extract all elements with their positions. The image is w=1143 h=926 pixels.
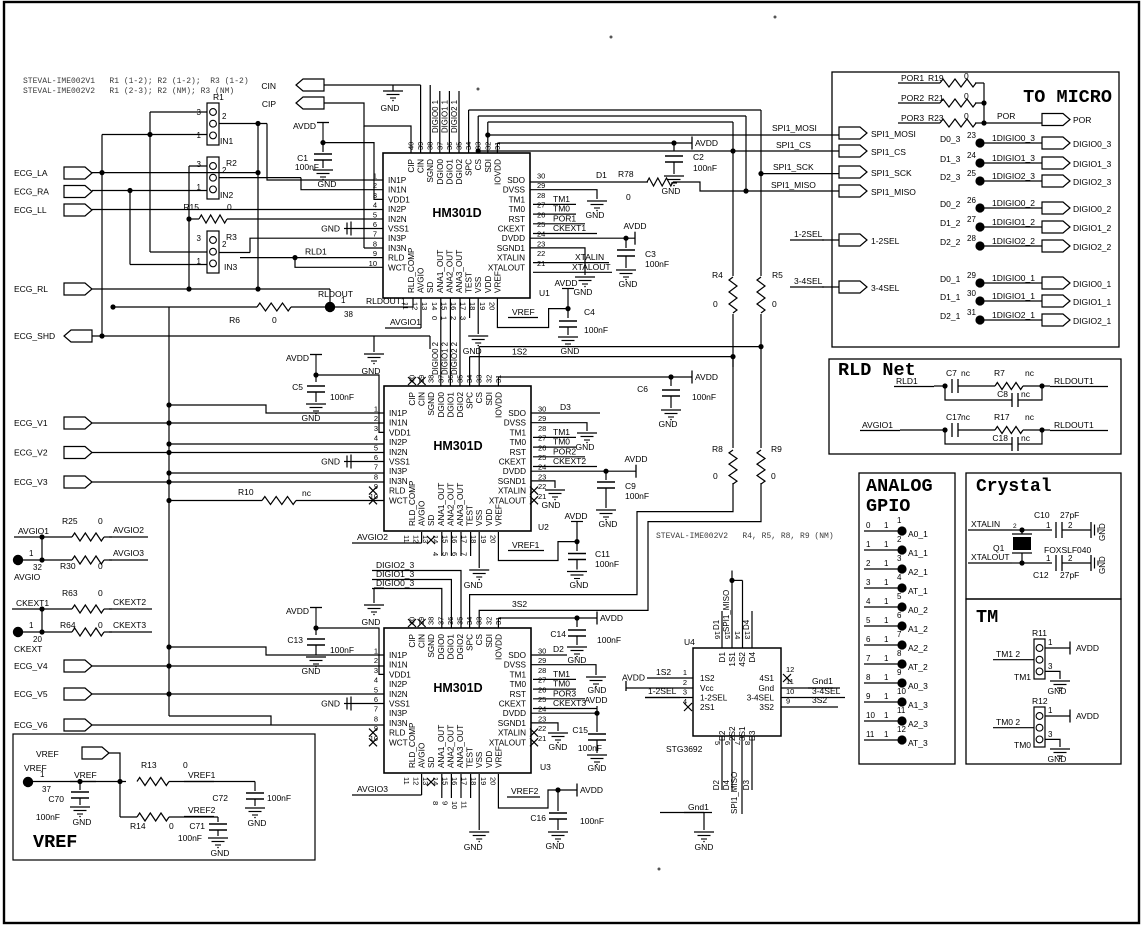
svg-text:DIGIO2_1: DIGIO2_1 [1073,316,1112,326]
svg-text:CKEXT2: CKEXT2 [553,456,586,466]
svg-text:22: 22 [537,249,545,258]
svg-text:C12: C12 [1033,570,1049,580]
svg-text:VREF: VREF [74,770,97,780]
svg-text:TM1 2: TM1 2 [996,649,1020,659]
svg-text:1: 1 [374,647,378,656]
svg-text:1-2SEL: 1-2SEL [871,236,900,246]
svg-text:1: 1 [683,668,687,677]
svg-text:AVGIO1: AVGIO1 [862,420,893,430]
svg-text:29: 29 [967,271,976,280]
svg-text:3-4SEL: 3-4SEL [794,276,823,286]
svg-text:ECG_V5: ECG_V5 [14,689,48,699]
svg-text:19: 19 [479,535,488,543]
svg-text:1DIGIO0_2: 1DIGIO0_2 [992,198,1035,208]
svg-text:0: 0 [272,315,277,325]
svg-text:VREF: VREF [33,832,77,853]
svg-text:ANA1_OUT: ANA1_OUT [437,483,446,526]
svg-text:3: 3 [1048,730,1053,739]
svg-text:DVSS: DVSS [503,186,526,195]
svg-text:CS: CS [475,391,484,403]
svg-text:D1: D1 [718,652,727,663]
svg-text:POR: POR [1073,115,1091,125]
svg-text:TM1: TM1 [553,669,570,679]
svg-text:2: 2 [222,166,227,175]
svg-text:R15: R15 [183,202,199,212]
svg-text:VREF1: VREF1 [188,770,216,780]
svg-text:GND: GND [1098,556,1107,574]
svg-text:3: 3 [459,316,468,320]
svg-text:1: 1 [439,316,448,320]
svg-text:R7: R7 [994,368,1005,378]
svg-text:R9: R9 [771,444,782,454]
svg-text:GND: GND [381,103,400,113]
svg-text:C9: C9 [625,481,636,491]
svg-text:1: 1 [884,654,889,663]
svg-text:AT_2: AT_2 [908,662,928,672]
svg-text:GND: GND [211,848,230,858]
svg-text:38: 38 [344,310,353,319]
svg-text:C4: C4 [584,307,595,317]
svg-text:0: 0 [713,471,718,481]
svg-text:1-2SEL: 1-2SEL [700,694,728,703]
svg-text:5: 5 [897,592,902,601]
svg-text:3: 3 [683,688,687,697]
svg-text:3: 3 [897,554,902,563]
svg-text:C7: C7 [946,368,957,378]
svg-text:nc: nc [1025,368,1035,378]
svg-text:R13: R13 [141,760,157,770]
svg-text:4: 4 [373,201,377,210]
svg-text:24: 24 [538,705,546,714]
svg-text:AVGIO2: AVGIO2 [113,525,144,535]
svg-text:TM: TM [976,607,998,628]
svg-text:1DIGIO0_3: 1DIGIO0_3 [992,133,1035,143]
svg-text:AVGIO3: AVGIO3 [357,784,388,794]
svg-text:IN2N: IN2N [389,690,408,699]
svg-text:AT_1: AT_1 [908,586,928,596]
svg-text:AVGIO: AVGIO [418,743,427,768]
svg-text:SDO: SDO [507,176,525,185]
svg-text:VDD1: VDD1 [389,428,411,437]
svg-text:U2: U2 [538,522,549,532]
svg-text:SPI1_MOSI: SPI1_MOSI [772,123,817,133]
svg-text:RLD_COMP: RLD_COMP [408,722,417,768]
svg-text:VREF2: VREF2 [188,805,216,815]
svg-text:SGND1: SGND1 [498,477,527,486]
svg-text:R8: R8 [712,444,723,454]
svg-text:XTALOUT: XTALOUT [489,738,526,747]
svg-text:CKEXT: CKEXT [14,644,42,654]
svg-text:IN2N: IN2N [388,215,407,224]
svg-text:100nF: 100nF [295,162,319,172]
svg-text:20: 20 [33,635,42,644]
svg-text:R10: R10 [238,487,254,497]
svg-text:1DIGIO1_3: 1DIGIO1_3 [992,153,1035,163]
svg-text:ECG_V3: ECG_V3 [14,477,48,487]
svg-text:28: 28 [538,424,546,433]
svg-text:GND: GND [542,500,561,510]
svg-text:11: 11 [866,730,875,739]
svg-text:XTALIN: XTALIN [498,487,526,496]
svg-text:29: 29 [538,414,546,423]
svg-text:VREF1: VREF1 [512,540,540,550]
svg-text:0: 0 [169,821,174,831]
svg-text:100nF: 100nF [330,392,354,402]
svg-text:IN1N: IN1N [389,419,408,428]
svg-text:5: 5 [866,616,871,625]
svg-text:VDD: VDD [484,276,493,293]
svg-text:SPI1_MOSI: SPI1_MOSI [871,129,916,139]
svg-text:AVDD: AVDD [580,785,603,795]
svg-text:C17: C17 [946,412,962,422]
svg-text:DVDD: DVDD [503,709,526,718]
svg-text:DGIO0: DGIO0 [437,392,446,418]
svg-text:AVGIO: AVGIO [14,572,41,582]
svg-text:1: 1 [374,405,378,414]
svg-text:GND: GND [546,841,565,851]
svg-text:TM0: TM0 [1014,740,1031,750]
svg-text:30: 30 [538,647,546,656]
svg-text:R4: R4 [712,270,723,280]
svg-text:0: 0 [772,299,777,309]
svg-text:IN2P: IN2P [389,438,408,447]
svg-text:Crystal: Crystal [976,477,1052,497]
svg-text:R30: R30 [60,561,76,571]
svg-text:VREF: VREF [36,749,59,759]
svg-text:27: 27 [967,215,976,224]
svg-text:C71: C71 [189,821,205,831]
svg-text:27: 27 [537,201,545,210]
svg-text:6: 6 [373,220,377,229]
svg-text:32: 32 [33,563,42,572]
svg-text:14: 14 [430,302,439,310]
svg-text:DGIO0: DGIO0 [436,159,445,185]
svg-text:Gnd: Gnd [759,684,775,693]
svg-text:TM0: TM0 [510,680,527,689]
svg-text:D2_1: D2_1 [940,311,961,321]
svg-text:3S2: 3S2 [812,695,827,705]
svg-text:1: 1 [40,770,45,779]
svg-text:0: 0 [964,91,969,101]
svg-text:AVDD: AVDD [585,695,608,705]
svg-text:IN2N: IN2N [389,448,408,457]
svg-text:3-4SEL: 3-4SEL [747,694,775,703]
svg-text:7: 7 [897,630,902,639]
svg-text:DIGIO1 1: DIGIO1 1 [440,100,449,133]
svg-text:0: 0 [430,316,439,320]
svg-text:A2_1: A2_1 [908,567,928,577]
svg-text:D1: D1 [712,619,721,630]
svg-text:XTALIN: XTALIN [498,729,526,738]
svg-text:Gnd1: Gnd1 [812,676,833,686]
svg-text:20: 20 [487,302,496,310]
svg-text:3S2: 3S2 [512,599,527,609]
svg-text:CKEXT3: CKEXT3 [113,620,146,630]
svg-text:RST: RST [509,215,525,224]
svg-text:ECG_V6: ECG_V6 [14,720,48,730]
svg-text:25: 25 [967,169,976,178]
svg-text:GND: GND [570,580,589,590]
svg-text:6: 6 [723,741,732,745]
svg-text:12: 12 [897,725,906,734]
svg-text:100nF: 100nF [692,392,716,402]
svg-text:9: 9 [897,668,902,677]
svg-text:AVGIO1: AVGIO1 [390,317,421,327]
svg-text:DGIO2: DGIO2 [455,159,464,185]
svg-text:100nF: 100nF [693,163,717,173]
svg-text:IN2: IN2 [220,190,234,200]
svg-text:WCT: WCT [389,738,408,747]
svg-text:AVDD: AVDD [1076,643,1099,653]
svg-text:IN2P: IN2P [389,680,408,689]
svg-text:AVDD: AVDD [1076,711,1099,721]
svg-text:8: 8 [374,472,378,481]
svg-text:5: 5 [374,685,378,694]
svg-text:CKEXT3: CKEXT3 [553,698,586,708]
svg-text:D2_2: D2_2 [940,237,961,247]
svg-text:3: 3 [1048,662,1053,671]
svg-text:VDD1: VDD1 [388,195,410,204]
svg-text:D0_3: D0_3 [940,134,961,144]
svg-text:POR2: POR2 [901,93,924,103]
svg-text:VSS: VSS [474,276,483,293]
svg-text:37: 37 [436,617,445,625]
svg-text:2: 2 [897,535,902,544]
svg-text:SGND1: SGND1 [497,244,526,253]
svg-text:U3: U3 [540,762,551,772]
svg-text:DVDD: DVDD [502,234,525,243]
svg-text:0: 0 [713,299,718,309]
svg-text:nc: nc [1025,412,1035,422]
svg-text:1: 1 [884,521,889,530]
svg-text:TM1: TM1 [553,427,570,437]
svg-text:AVDD: AVDD [293,121,316,131]
svg-text:Vcc: Vcc [700,684,714,693]
svg-text:GND: GND [318,179,337,189]
svg-text:24: 24 [537,230,545,239]
svg-text:IN1P: IN1P [389,651,408,660]
svg-text:GND: GND [463,346,482,356]
svg-text:5: 5 [374,443,378,452]
svg-text:R6: R6 [229,315,240,325]
svg-text:D0_2: D0_2 [940,199,961,209]
svg-text:CKEXT: CKEXT [499,700,526,709]
svg-text:SPI1_SCK: SPI1_SCK [773,162,814,172]
svg-text:D2: D2 [553,644,564,654]
svg-text:1: 1 [884,673,889,682]
svg-text:7: 7 [373,230,377,239]
svg-text:GND: GND [662,186,681,196]
svg-text:VSS1: VSS1 [389,458,410,467]
svg-text:ANA2_OUT: ANA2_OUT [445,250,454,293]
svg-text:POR3: POR3 [901,113,924,123]
svg-text:8: 8 [743,741,752,745]
svg-text:D3: D3 [560,402,571,412]
svg-text:STEVAL-IME002V1 R1 (1-2); R2: STEVAL-IME002V1 R1 (1-2); R2 (1-2); R3 (… [23,77,249,86]
svg-text:1: 1 [884,597,889,606]
svg-text:CKEXT1: CKEXT1 [553,223,586,233]
svg-text:GND: GND [659,419,678,429]
svg-text:ECG_V2: ECG_V2 [14,448,48,458]
svg-text:WCT: WCT [388,263,407,272]
svg-text:GND: GND [586,210,605,220]
svg-text:100nF: 100nF [178,833,202,843]
svg-text:GND: GND [321,457,340,467]
svg-text:100nF: 100nF [597,635,621,645]
svg-text:27pF: 27pF [1060,510,1079,520]
svg-text:TM1: TM1 [509,195,526,204]
svg-text:GND: GND [73,817,92,827]
svg-text:GND: GND [599,519,618,529]
svg-text:GND: GND [561,346,580,356]
svg-text:TM0: TM0 [553,204,570,214]
svg-text:26: 26 [967,196,976,205]
svg-text:AVDD: AVDD [695,372,718,382]
svg-text:1: 1 [197,131,202,140]
svg-text:A1_1: A1_1 [908,548,928,558]
svg-text:GND: GND [576,442,595,452]
svg-text:ANA3_OUT: ANA3_OUT [455,250,464,293]
svg-text:9: 9 [440,801,449,805]
svg-text:U1: U1 [539,288,550,298]
svg-text:1-2SEL: 1-2SEL [648,686,677,696]
svg-text:GND: GND [1098,523,1107,541]
svg-text:100nF: 100nF [330,645,354,655]
svg-text:IN1N: IN1N [389,661,408,670]
svg-text:0: 0 [964,71,969,81]
svg-text:GND: GND [1048,686,1067,696]
svg-text:32: 32 [484,375,493,383]
svg-text:SD: SD [427,757,436,768]
svg-text:7: 7 [733,741,742,745]
svg-text:DIGIO1_3: DIGIO1_3 [1073,159,1112,169]
svg-text:R3: R3 [226,232,237,242]
svg-text:0: 0 [626,192,631,202]
svg-text:32: 32 [484,617,493,625]
svg-text:IN3P: IN3P [389,467,408,476]
svg-text:TM0: TM0 [510,438,527,447]
svg-text:D1_2: D1_2 [940,218,961,228]
svg-text:24: 24 [538,463,546,472]
svg-text:4S1: 4S1 [759,674,774,683]
svg-text:RLD_COMP: RLD_COMP [408,480,417,526]
svg-text:TM1: TM1 [510,670,527,679]
svg-text:TEST: TEST [466,747,475,768]
svg-text:AVDD: AVDD [286,606,309,616]
svg-text:100nF: 100nF [36,812,60,822]
svg-text:6: 6 [374,453,378,462]
svg-text:D2: D2 [712,779,721,790]
svg-text:1DIGIO2_3: 1DIGIO2_3 [992,171,1035,181]
svg-text:SPI1_MISO: SPI1_MISO [722,590,731,632]
svg-text:GND: GND [464,842,483,852]
svg-text:XTALOUT: XTALOUT [489,496,526,505]
svg-text:6: 6 [450,552,459,556]
svg-text:DIGIO0 2: DIGIO0 2 [431,342,440,375]
svg-text:RLDOUT1: RLDOUT1 [1054,376,1094,386]
svg-text:RLD1: RLD1 [305,247,327,257]
svg-text:2: 2 [866,559,871,568]
svg-text:24: 24 [967,151,976,160]
svg-text:POR: POR [997,111,1015,121]
svg-text:STG3692: STG3692 [666,744,703,754]
svg-text:D0_1: D0_1 [940,274,961,284]
svg-text:1: 1 [884,616,889,625]
svg-text:HM301D: HM301D [432,206,481,220]
svg-text:XTALIN: XTALIN [971,519,1000,529]
svg-text:C16: C16 [530,813,546,823]
svg-text:DIGIO0_3: DIGIO0_3 [376,578,415,588]
svg-text:R11: R11 [1032,628,1047,638]
svg-text:1DIGIO1_1: 1DIGIO1_1 [992,291,1035,301]
svg-text:27: 27 [538,676,546,685]
svg-text:AVGIO2: AVGIO2 [357,532,388,542]
svg-text:31: 31 [967,308,976,317]
svg-text:DIGIO2_2: DIGIO2_2 [1073,242,1112,252]
svg-text:26: 26 [538,443,546,452]
svg-text:nc: nc [1021,389,1031,399]
svg-text:3: 3 [374,424,378,433]
svg-text:25: 25 [538,695,546,704]
svg-text:R25: R25 [62,516,78,526]
svg-text:100nF: 100nF [584,325,608,335]
svg-text:TEST: TEST [466,505,475,526]
svg-text:XTALOUT: XTALOUT [971,552,1010,562]
svg-text:1: 1 [341,296,346,305]
svg-text:C6: C6 [637,384,648,394]
svg-text:2: 2 [374,414,378,423]
svg-text:CKEXT: CKEXT [499,458,526,467]
svg-text:1-2SEL: 1-2SEL [794,229,823,239]
svg-text:AVDD: AVDD [625,454,648,464]
svg-text:28: 28 [967,234,976,243]
svg-text:4: 4 [431,552,440,556]
svg-text:2: 2 [1068,554,1073,563]
svg-text:R78: R78 [618,169,634,179]
svg-text:6: 6 [897,611,902,620]
svg-text:19: 19 [478,302,487,310]
svg-text:SPC: SPC [466,392,475,409]
svg-text:IN1N: IN1N [388,186,407,195]
svg-text:SGND1: SGND1 [498,719,527,728]
svg-text:100nF: 100nF [578,743,602,753]
svg-text:C8: C8 [997,389,1008,399]
svg-text:1: 1 [1048,638,1053,647]
svg-text:DIGIO1 2: DIGIO1 2 [440,342,449,375]
svg-text:A1_3: A1_3 [908,700,928,710]
svg-text:C10: C10 [1034,510,1050,520]
svg-text:WCT: WCT [389,496,408,505]
svg-text:RLD: RLD [388,254,404,263]
svg-text:GND: GND [568,655,587,665]
svg-text:14: 14 [733,631,742,639]
svg-text:AVDD: AVDD [600,613,623,623]
svg-text:U4: U4 [684,637,695,647]
svg-text:SPI1_MISO: SPI1_MISO [771,180,816,190]
svg-text:SPI1_MISO: SPI1_MISO [730,772,739,814]
svg-text:1S2: 1S2 [656,667,671,677]
svg-text:7: 7 [374,463,378,472]
svg-text:37: 37 [42,785,51,794]
svg-text:VREF: VREF [493,271,502,293]
svg-text:nc: nc [1021,433,1031,443]
svg-text:AVGIO1: AVGIO1 [18,526,49,536]
svg-text:DIGIO0_1: DIGIO0_1 [1073,279,1112,289]
svg-text:DGIO0: DGIO0 [437,634,446,660]
svg-text:1: 1 [884,730,889,739]
svg-text:SPI1_MISO: SPI1_MISO [871,187,916,197]
svg-text:AVDD: AVDD [555,278,578,288]
